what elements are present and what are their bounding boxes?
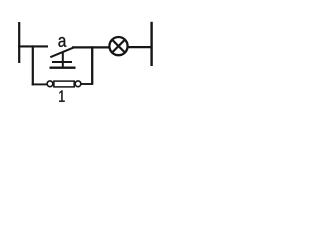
lamp L1: cross stroke 2 [112, 40, 125, 53]
wire: contact to lamp [72, 46, 109, 48]
relay coil 1: left terminal circle [47, 81, 53, 87]
label a (contact name) [58, 37, 66, 47]
wire: riser up to top wire [91, 46, 93, 83]
contact a: button cap lower bar [50, 67, 76, 69]
wire: left rail to contact [18, 45, 48, 47]
contact a: actuator stem [62, 52, 64, 67]
left supply rail [18, 22, 20, 63]
relay coil 1: body box [54, 81, 74, 87]
relay coil 1: right terminal circle [75, 81, 81, 87]
lamp L1: cross stroke 1 [112, 40, 125, 53]
contact a: moving blade [50, 48, 73, 58]
right supply rail [150, 22, 152, 66]
contact a: button cap upper bar [52, 61, 72, 63]
wire: coil to riser [81, 83, 93, 85]
wire: branch down from node at top wire [32, 45, 34, 85]
wire: lamp to right rail [129, 46, 152, 48]
wire: branch horizontal to coil [32, 83, 47, 85]
label 1 (relay coil designator) [59, 90, 64, 101]
lamp L1: envelope circle [109, 37, 127, 55]
